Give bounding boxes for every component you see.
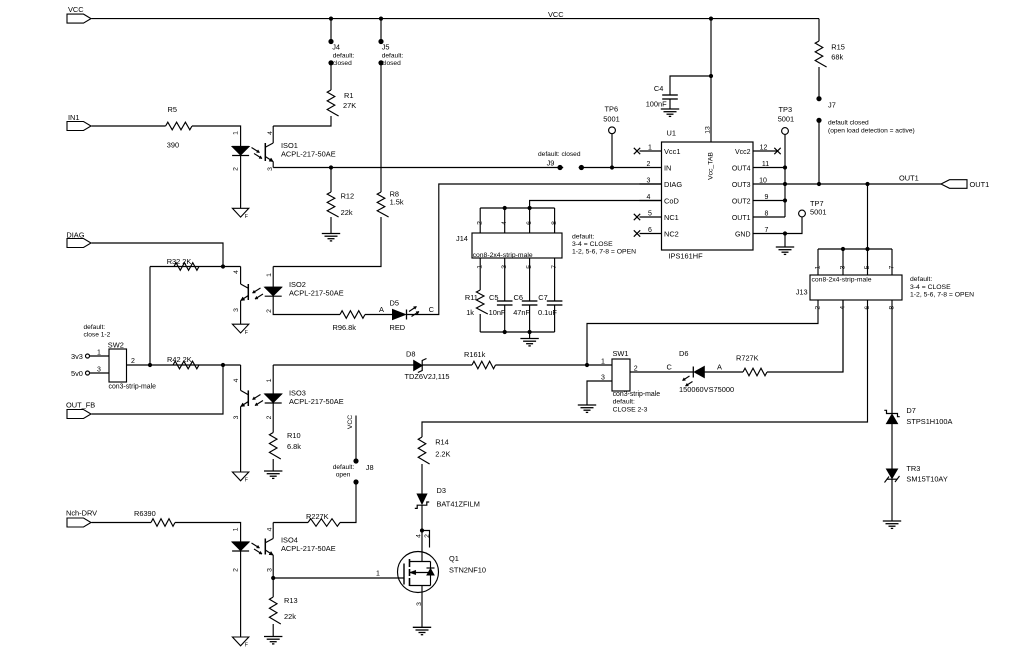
svg-text:Vcc1: Vcc1: [664, 147, 680, 156]
svg-text:TP3: TP3: [779, 105, 793, 114]
svg-text:3: 3: [97, 367, 101, 374]
junction R32 net / DIAG port wire: [221, 264, 225, 268]
svg-text:1: 1: [648, 145, 652, 152]
wire ISO4 pin 4 to R227K: [273, 522, 308, 524]
wire TP6 to IN net: [611, 134, 613, 168]
svg-text:13: 13: [705, 126, 712, 134]
svg-text:U1: U1: [667, 129, 676, 138]
svg-text:1: 1: [97, 350, 101, 357]
no-connect X on U1 pin 6: [634, 230, 640, 236]
svg-text:J13: J13: [796, 288, 808, 297]
svg-text:4: 4: [501, 221, 508, 225]
wire joining U1 outputs (OUT1-OUT4 tie): [784, 135, 786, 218]
svg-text:2: 2: [232, 167, 239, 171]
junction IN net / R12: [329, 165, 333, 169]
junction OUT3/out tie: [783, 182, 787, 186]
wire Nch-DRV to R6390: [92, 522, 152, 524]
svg-text:(open load detection = active): (open load detection = active): [828, 128, 915, 135]
svg-text:1: 1: [266, 273, 273, 277]
svg-text:closed: closed: [333, 60, 352, 67]
svg-text:CLOSE 2-3: CLOSE 2-3: [613, 407, 648, 414]
wire ISO3 emitter to ground: [240, 407, 242, 472]
Q1 source to ground: [421, 586, 423, 628]
svg-text:47nF: 47nF: [513, 308, 530, 317]
resistor R15: [815, 41, 826, 67]
wire R727K to J13 pin 4: [767, 300, 843, 372]
svg-text:1: 1: [814, 265, 821, 269]
svg-text:R42 2K: R42 2K: [167, 355, 192, 364]
svg-text:TR3: TR3: [906, 464, 920, 473]
wire ISO4 LED cathode to ground: [240, 551, 242, 637]
jumper J4 pad 1: [328, 39, 333, 44]
resistor R63 390: [151, 519, 175, 527]
svg-text:J5: J5: [382, 42, 390, 51]
svg-text:2: 2: [424, 534, 431, 538]
resistor R96.8k: [340, 311, 365, 319]
svg-text:3: 3: [233, 415, 240, 419]
svg-text:Nch-DRV: Nch-DRV: [66, 509, 97, 518]
capacitor C7: [547, 300, 563, 302]
svg-text:3: 3: [267, 568, 274, 572]
svg-text:NC2: NC2: [664, 230, 679, 239]
wire VCC to J5: [380, 19, 382, 42]
svg-text:3: 3: [839, 265, 846, 269]
wire R11 to bottom bus: [479, 314, 481, 332]
svg-text:TP6: TP6: [605, 105, 619, 114]
wire bottom bus to ground: [529, 332, 531, 339]
wire SW2 pin 2 to ISO3 pin 4: [150, 364, 241, 366]
jumper J4 pad 2: [328, 60, 333, 65]
wire OUT1 output net: [785, 183, 941, 185]
junction J14 bus pin 4: [503, 206, 507, 210]
ISO2 light arrows: [253, 288, 261, 293]
svg-text:9: 9: [765, 194, 769, 201]
svg-text:A: A: [379, 305, 384, 314]
capacitor C5: [497, 300, 513, 302]
svg-text:390: 390: [167, 141, 179, 150]
wire U1 pin 7 GND to ground: [783, 231, 787, 235]
svg-text:D3: D3: [437, 486, 446, 495]
no-connect X on U1 pin 1: [634, 148, 640, 154]
wire node to R13: [272, 578, 274, 597]
svg-text:OUT3: OUT3: [732, 182, 751, 189]
resistor R32 2K: [174, 263, 199, 271]
svg-text:TDZ6V2J,115: TDZ6V2J,115: [405, 372, 450, 381]
svg-text:1: 1: [601, 359, 605, 366]
wire J8 to VCC stub: [355, 416, 357, 462]
wire ISO1 pin 3 to U1 pin 2 (IN net): [273, 167, 639, 169]
test point TP6: [609, 127, 616, 134]
svg-text:2: 2: [266, 309, 273, 313]
optocoupler ISO4 phototransistor: [264, 539, 266, 555]
svg-text:5001: 5001: [810, 208, 826, 217]
junction OUT2/out tie: [783, 198, 787, 202]
connector J14 body: [472, 233, 562, 258]
resistor R161k: [472, 361, 495, 369]
wire D6 anode to R727K: [704, 371, 743, 373]
svg-text:default:: default:: [333, 464, 355, 471]
no-connect X on U1 pin 5: [634, 214, 640, 220]
svg-text:2: 2: [232, 568, 239, 572]
svg-text:J4: J4: [332, 42, 340, 51]
SW2 pin 2 stub: [127, 364, 151, 366]
connector J13 body: [810, 275, 902, 300]
wire C6 to bottom bus: [529, 305, 531, 332]
svg-text:DIAG: DIAG: [664, 180, 682, 189]
svg-text:RED: RED: [390, 323, 406, 332]
svg-text:4: 4: [267, 131, 274, 135]
svg-text:1: 1: [477, 265, 484, 269]
junction VCC / J4 branch: [329, 17, 333, 21]
svg-text:3: 3: [233, 308, 240, 312]
svg-text:5: 5: [526, 265, 533, 269]
port OUT_FB: [67, 410, 91, 419]
svg-text:5v0: 5v0: [71, 369, 83, 378]
svg-text:1-2, 5-6, 7-8 = OPEN: 1-2, 5-6, 7-8 = OPEN: [572, 249, 636, 256]
junction R42 net / OUT_FB: [221, 363, 225, 367]
svg-text:C: C: [429, 305, 435, 314]
wire R5 to ISO1 LED anode: [192, 126, 241, 147]
ground (F) below ISO3: [232, 472, 248, 481]
D6 light arrows: [683, 376, 690, 381]
ground (F) below ISO4 LED: [232, 637, 248, 646]
svg-text:OUT1: OUT1: [899, 174, 919, 183]
svg-text:STN2NF10: STN2NF10: [449, 566, 486, 575]
wire U1 DIAG to D5 cathode (DIAG net): [407, 184, 662, 315]
resistor R10: [269, 433, 280, 459]
svg-text:OUT4: OUT4: [732, 166, 751, 173]
svg-text:1.5k: 1.5k: [390, 197, 404, 206]
junction SW1 pin 1 node: [585, 363, 589, 367]
svg-text:con3-strip-male: con3-strip-male: [613, 391, 661, 398]
svg-text:4: 4: [233, 378, 240, 382]
J13 pin 3 stub: [842, 249, 844, 275]
svg-text:7: 7: [551, 265, 558, 269]
junction VCC / U1 Vcc_TAB branch: [709, 17, 713, 21]
svg-text:150060VS75000: 150060VS75000: [679, 385, 734, 394]
Q1 gate wire from ISO4: [273, 577, 404, 579]
svg-text:default:: default:: [572, 234, 594, 241]
wire C4 to ground: [669, 99, 671, 109]
svg-text:7: 7: [888, 265, 895, 269]
svg-text:C4: C4: [654, 84, 663, 93]
svg-text:6: 6: [526, 221, 533, 225]
svg-text:J9: J9: [547, 158, 555, 167]
J14 pin 2 stub: [479, 208, 481, 233]
jumper J9 pad 1: [557, 165, 562, 170]
svg-text:con8-2x4-strip-male: con8-2x4-strip-male: [473, 252, 533, 259]
svg-text:27K: 27K: [343, 101, 356, 110]
ground below U1 pin 7: [776, 246, 794, 248]
port IN1: [67, 122, 91, 131]
svg-text:5: 5: [864, 265, 871, 269]
ground below SW1 pin 3: [578, 404, 596, 406]
svg-text:closed: closed: [382, 60, 401, 67]
svg-text:default:: default:: [613, 399, 635, 406]
U1 pin 11 OUT4 stub: [753, 167, 785, 169]
svg-text:R227K: R227K: [306, 512, 329, 521]
svg-text:7: 7: [765, 227, 769, 234]
jumper J8 pad 1: [353, 458, 358, 463]
U1 pin 7 GND stub: [753, 233, 785, 235]
svg-text:1: 1: [266, 378, 273, 382]
svg-text:IN1: IN1: [68, 113, 80, 122]
svg-text:6: 6: [864, 306, 871, 310]
junction J14 bus pin 6 / CoD: [528, 206, 532, 210]
svg-text:4: 4: [416, 534, 423, 538]
wire R12 to ground: [330, 217, 332, 234]
jumper J5 pad 1: [378, 39, 383, 44]
ground below C4: [661, 108, 679, 110]
Q1 gate bar: [403, 564, 405, 585]
svg-text:8: 8: [765, 211, 769, 218]
U1 pin 10 OUT3 stub: [753, 183, 785, 185]
junction OUT net / J13 pin 5: [865, 182, 869, 186]
J14 pin 8 stub: [554, 208, 556, 233]
svg-text:6: 6: [648, 227, 652, 234]
svg-text:68k: 68k: [831, 53, 843, 62]
wire R8 to ISO2 pin 1: [273, 217, 381, 267]
svg-text:R5: R5: [168, 105, 177, 114]
J13 pin 4 stub: [842, 300, 844, 372]
wire J4 to R1: [330, 63, 332, 90]
U1 pin 5 NC1 stub: [640, 216, 662, 218]
wire R161k to SW1 pin 1: [496, 364, 588, 366]
svg-text:1k: 1k: [466, 308, 474, 317]
wire D7 to TR3: [891, 424, 893, 469]
svg-text:con3-strip-male: con3-strip-male: [109, 384, 157, 391]
wire R15 to J7: [818, 67, 820, 99]
wire R14 to D3: [421, 464, 423, 494]
svg-text:100nF: 100nF: [646, 100, 667, 109]
svg-text:J14: J14: [456, 234, 468, 243]
wire R10 to ground: [272, 459, 274, 471]
junction Vcc_TAB / C4: [709, 74, 713, 78]
svg-text:F: F: [245, 330, 248, 336]
ISO4 light arrows: [252, 543, 260, 548]
U1 pin 6 NC2 stub: [640, 233, 662, 235]
optocoupler ISO3 LED: [272, 365, 274, 394]
svg-text:D8: D8: [406, 350, 415, 359]
jumper J7 pad 2: [816, 118, 821, 123]
svg-text:R6390: R6390: [134, 509, 156, 518]
J14 pin 6 stub: [529, 208, 531, 233]
svg-text:R12: R12: [341, 191, 355, 200]
svg-text:3v3: 3v3: [71, 352, 83, 361]
svg-text:D7: D7: [906, 406, 915, 415]
J13 pin 6 stub and wire to R14: [422, 300, 868, 437]
U1 pin 2 IN stub: [640, 167, 662, 169]
svg-text:F: F: [245, 643, 248, 649]
svg-text:R1: R1: [344, 91, 353, 100]
svg-text:6.8k: 6.8k: [287, 442, 301, 451]
svg-text:Q1: Q1: [449, 554, 459, 563]
wire IN1 to R5: [92, 125, 166, 127]
junction bottom bus C6 / ground: [528, 330, 532, 334]
svg-text:C: C: [667, 363, 673, 372]
svg-text:open: open: [336, 472, 351, 479]
wire R13 to ground: [272, 624, 274, 637]
Q1 source arrow: [410, 572, 431, 574]
svg-text:R14: R14: [435, 438, 449, 447]
svg-text:8: 8: [888, 306, 895, 310]
svg-text:D5: D5: [390, 299, 399, 308]
svg-text:R32 2K: R32 2K: [167, 257, 192, 266]
schottky diode D7 STPS1H100A: [884, 410, 899, 416]
J13 top bus wire: [818, 248, 892, 250]
svg-text:ACPL-217-50AE: ACPL-217-50AE: [281, 149, 336, 158]
wire R227K to J8: [340, 482, 356, 523]
optocoupler ISO2 phototransistor: [247, 284, 249, 300]
svg-text:1: 1: [232, 527, 239, 531]
U1 pin 1 Vcc1 stub: [640, 150, 662, 152]
svg-text:10nF: 10nF: [489, 308, 506, 317]
Q1 drain internal connection: [410, 561, 431, 563]
svg-text:22k: 22k: [341, 208, 353, 217]
svg-text:1: 1: [376, 571, 380, 578]
test point TP7: [799, 210, 806, 217]
wire R32 net to ISO2 pin 4: [150, 266, 241, 268]
svg-text:R727K: R727K: [736, 354, 759, 363]
junction OUT net / J7: [817, 182, 821, 186]
SW1 pin 1 stub: [587, 364, 612, 366]
svg-text:R15: R15: [831, 43, 845, 52]
capacitor C4: [662, 94, 678, 96]
svg-text:OUT1: OUT1: [732, 215, 751, 222]
optocoupler ISO1 LED: [232, 146, 249, 148]
optocoupler ISO4 LED: [232, 541, 249, 543]
Q1 body diode branch: [430, 562, 432, 586]
resistor R42 2K: [173, 361, 199, 369]
wire TP7 to GND net: [785, 217, 802, 234]
svg-text:SW2: SW2: [108, 341, 124, 350]
wire ISO3 pin 1 to D8: [273, 364, 414, 366]
wire D3 to Q1 drain: [421, 505, 423, 561]
J13 pin 8 stub to D7: [891, 300, 893, 414]
zener diode D8 TDZ6V2J: [414, 361, 423, 371]
switch SW2 body: [109, 349, 127, 382]
svg-text:SM15T10AY: SM15T10AY: [906, 475, 947, 484]
svg-text:IPS161HF: IPS161HF: [669, 252, 704, 261]
svg-text:J7: J7: [828, 101, 836, 110]
svg-text:default:: default:: [910, 276, 932, 283]
svg-text:Vcc_TAB: Vcc_TAB: [708, 152, 715, 180]
J13 pin 5 stub: [867, 249, 869, 275]
wire VCC to J4: [330, 19, 332, 42]
optocoupler ISO2 LED: [272, 267, 274, 288]
schottky diode D3 BAT41ZFILM: [417, 494, 427, 504]
wire R1 to ISO1 pin 4: [273, 116, 331, 126]
svg-text:OUT2: OUT2: [732, 199, 751, 206]
svg-text:NC1: NC1: [664, 213, 679, 222]
junction J13 bus pin 5: [865, 247, 869, 251]
wire J5 to R8: [380, 63, 382, 192]
J14 top bus wire: [480, 207, 554, 209]
svg-text:1: 1: [232, 131, 239, 135]
svg-text:8: 8: [551, 221, 558, 225]
svg-text:default:: default:: [84, 324, 106, 331]
J14 pin 1 stub: [479, 258, 481, 290]
svg-text:10: 10: [759, 178, 767, 185]
svg-text:3: 3: [501, 265, 508, 269]
svg-text:GND: GND: [735, 232, 751, 239]
junction ISO4 emitter / R13 / gate: [271, 576, 275, 580]
svg-text:2: 2: [814, 306, 821, 310]
junction Q1 drain pins 2/4: [420, 528, 424, 532]
svg-text:con8-2x4-strip-male: con8-2x4-strip-male: [812, 277, 872, 284]
MOSFET Q1 STN2NF10 body circle: [398, 552, 439, 593]
ground (F) below ISO2: [232, 324, 248, 333]
svg-text:11: 11: [762, 161, 769, 168]
J14 pin 4 stub: [504, 208, 506, 233]
svg-text:R96.8k: R96.8k: [333, 323, 357, 332]
svg-text:C7: C7: [538, 293, 547, 302]
svg-text:D6: D6: [679, 349, 688, 358]
svg-text:ACPL-217-50AE: ACPL-217-50AE: [289, 289, 344, 298]
wire R96.8k to ISO2 pin 2: [273, 297, 340, 315]
jumper J7 pad 1: [816, 96, 821, 101]
ground below R13: [264, 636, 282, 638]
svg-text:ACPL-217-50AE: ACPL-217-50AE: [281, 544, 336, 553]
switch SW1 body: [612, 359, 630, 391]
ground below TR3: [883, 520, 901, 522]
resistor R14: [418, 437, 429, 464]
svg-text:ACPL-217-50AE: ACPL-217-50AE: [289, 397, 344, 406]
svg-text:C5: C5: [489, 293, 498, 302]
test point TP3: [782, 128, 789, 135]
svg-text:IN: IN: [664, 164, 671, 173]
port DIAG: [67, 239, 91, 248]
Q1 body diode: [427, 567, 435, 569]
svg-text:3: 3: [416, 602, 423, 606]
svg-text:5001: 5001: [603, 115, 619, 124]
svg-text:BAT41ZFILM: BAT41ZFILM: [437, 500, 480, 509]
svg-text:OUT_FB: OUT_FB: [66, 401, 95, 410]
svg-text:5: 5: [648, 211, 652, 218]
jumper J9 gap (default closed): [563, 166, 578, 168]
svg-text:OUT1: OUT1: [970, 180, 990, 189]
capacitor C6: [522, 300, 538, 302]
svg-text:3-4 = CLOSE: 3-4 = CLOSE: [910, 284, 951, 291]
svg-text:R13: R13: [284, 596, 298, 605]
wire J7 to OUT net: [818, 120, 820, 184]
svg-text:CoD: CoD: [664, 197, 679, 206]
Q1 channel bar segments: [409, 559, 411, 567]
ISO1 light arrows: [252, 148, 260, 153]
wire VCC top rail: [92, 18, 820, 20]
svg-text:VCC: VCC: [548, 10, 564, 19]
resistor R11: [476, 290, 487, 314]
U1 pin 3 DIAG stub: [640, 183, 662, 185]
svg-text:VCC: VCC: [68, 5, 84, 14]
TVS diode TR3 SM15T10AY: [887, 469, 898, 478]
svg-text:default: closed: default: closed: [538, 151, 581, 158]
jumper J8 pad 2: [353, 479, 358, 484]
junction bottom bus C5: [503, 330, 507, 334]
U1 pin 9 OUT2 stub: [753, 200, 785, 202]
wire DIAG port to R32 net: [92, 243, 224, 267]
svg-text:default:: default:: [333, 53, 355, 60]
svg-text:22k: 22k: [284, 612, 296, 621]
optocoupler ISO1 phototransistor: [264, 143, 266, 161]
svg-text:5001: 5001: [778, 115, 794, 124]
ISO3 light arrows: [253, 395, 261, 400]
optocoupler ISO3 phototransistor: [247, 390, 249, 406]
J13 pin 7 stub: [891, 249, 893, 275]
svg-text:1-2, 5-6, 7-8 = OPEN: 1-2, 5-6, 7-8 = OPEN: [910, 292, 974, 299]
wire C5 to bottom bus: [504, 305, 506, 332]
svg-text:default closed: default closed: [828, 120, 869, 127]
